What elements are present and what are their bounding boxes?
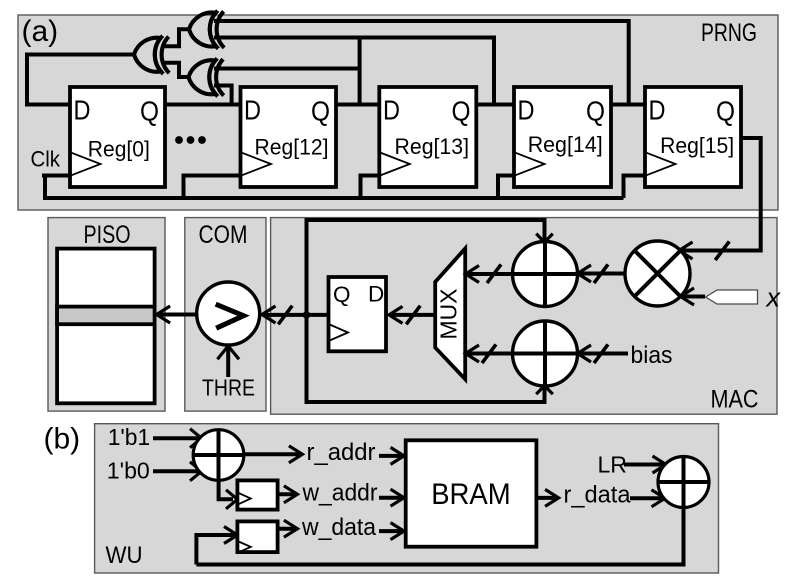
arrowhead into PISO — [157, 306, 171, 323]
svg-text:x: x — [765, 283, 782, 313]
wire LR to adderW2 — [624, 463, 663, 467]
wire clock stub Reg[14] — [498, 176, 514, 199]
svg-text:w_addr: w_addr — [302, 480, 378, 507]
tick on FF-COM wire — [278, 306, 292, 325]
svg-text:Q: Q — [333, 282, 351, 307]
PISO panel box — [48, 218, 165, 412]
clock triangle — [329, 324, 349, 341]
PISO shift register rect — [57, 249, 155, 404]
svg-text:Q: Q — [311, 96, 330, 127]
svg-text:r_data: r_data — [564, 482, 632, 509]
arrowhead into FF D — [389, 306, 403, 323]
wire: tap y=85.5 from bottom XOR to x=231.6 — [214, 86, 232, 105]
arrowhead into comparator — [262, 306, 276, 323]
arrowhead into w_data reg — [224, 527, 238, 544]
svg-text:Reg[0]: Reg[0] — [88, 137, 150, 162]
wire COM to PISO — [158, 313, 197, 317]
clock triangle — [514, 152, 545, 176]
wire w_data reg out — [278, 527, 294, 531]
svg-text:(a): (a) — [22, 15, 59, 48]
svg-text:bias: bias — [631, 342, 673, 369]
comparator > symbol — [216, 304, 244, 328]
svg-text:Q: Q — [140, 96, 159, 127]
svg-text:MAC: MAC — [711, 386, 759, 414]
svg-text:Reg[14]: Reg[14] — [528, 132, 603, 157]
wire THRE arrow — [226, 348, 230, 377]
wire FF Q to comparator — [264, 313, 329, 317]
wire multiplier to adder1 — [580, 272, 625, 276]
wire: tap y=21 from top XOR to x=628.7 — [214, 21, 629, 105]
arrowhead into multiplier right — [681, 288, 695, 305]
arrowhead into BRAM r_addr — [391, 447, 405, 464]
adder1 circle (upper) — [513, 242, 578, 307]
tick on adder1-MUX wire — [487, 264, 501, 283]
WU panel box — [95, 424, 719, 573]
wire Reg[12].Q to Reg[13].D — [336, 103, 379, 107]
plus cross — [193, 430, 244, 481]
tick on MUX-FF wire — [406, 306, 420, 325]
arrowhead into w_addr reg — [226, 490, 237, 509]
x input flag — [706, 290, 758, 304]
MAC panel box — [271, 218, 777, 415]
svg-text:D: D — [368, 282, 384, 307]
wire clock stub Reg[13] — [361, 176, 380, 199]
w_data register — [237, 521, 277, 552]
wire: top XOR output to middle XOR input — [164, 29, 190, 46]
arrowhead w_data — [284, 520, 298, 537]
wire: middle XOR output to Reg[0] D — [27, 55, 135, 105]
comparator circle — [197, 282, 260, 345]
tick on Reg[15] output wire — [715, 241, 729, 260]
clock triangle — [645, 152, 676, 176]
multiplier circle — [625, 241, 690, 306]
wire: tap y=68.5 from bottom XOR to x=359.6 — [214, 67, 360, 71]
wire: vertical tap x=359.6 — [358, 38, 362, 105]
tick on adder2-MUX wire — [482, 344, 496, 363]
xor gate G1 (top) — [189, 11, 224, 49]
wire r_data to adderW2 — [630, 496, 662, 500]
xor gate G2 (middle) — [134, 36, 169, 74]
svg-text:COM: COM — [199, 221, 248, 249]
svg-text:Q: Q — [716, 96, 735, 127]
wire adder1 to MUX — [468, 272, 513, 276]
svg-text:BRAM: BRAM — [431, 478, 511, 511]
wire w_addr to BRAM — [379, 496, 402, 500]
arrowhead r_data — [545, 489, 559, 506]
times cross — [635, 251, 681, 297]
arrowhead THRE up — [217, 346, 239, 359]
svg-text:D: D — [518, 95, 535, 126]
register Reg[12] — [241, 87, 337, 187]
wire r_addr to BRAM — [379, 454, 402, 458]
svg-text:D: D — [383, 95, 400, 126]
plus cross — [658, 457, 709, 508]
svg-text:Q: Q — [452, 96, 471, 127]
svg-text:WU: WU — [106, 542, 143, 569]
adder W1 circle — [193, 430, 244, 481]
wire Clk into Reg[0] — [42, 174, 70, 178]
w_addr register — [237, 480, 277, 509]
wire Reg[13].Q to Reg[14].D — [477, 103, 515, 107]
svg-text:PISO: PISO — [84, 221, 131, 249]
PISO middle band — [57, 307, 155, 325]
svg-text:D: D — [244, 95, 261, 126]
COM panel box — [185, 218, 266, 412]
wire Reg[14].Q to Reg[15].D — [611, 103, 645, 107]
wire clock stub Reg[12] — [184, 176, 241, 199]
wire 1'b0 to adderW1 — [153, 469, 199, 473]
clock triangle — [237, 541, 250, 553]
wire feedback into w_data reg — [196, 535, 234, 565]
arrowhead w_addr — [284, 486, 298, 503]
tick on mult-adder1 wire — [594, 264, 608, 283]
clock triangle — [237, 492, 250, 504]
wire MUX to FF — [391, 313, 435, 317]
PRNG panel box — [18, 15, 778, 210]
wire adderW1 to r_addr — [244, 452, 299, 456]
svg-text:1'b1: 1'b1 — [108, 424, 151, 450]
arrowhead 1'b1 — [190, 429, 202, 448]
svg-text:w_data: w_data — [301, 514, 377, 541]
arrowhead into MUX lower — [466, 345, 480, 362]
dots between Reg[0] and Reg[12] — [175, 136, 206, 144]
wire: bottom XOR output to middle XOR input — [164, 63, 190, 77]
junction dot — [303, 311, 311, 319]
MUX trapezoid — [435, 249, 465, 380]
wire 1'b1 to adderW1 — [153, 436, 199, 440]
register Reg[13] — [379, 87, 476, 187]
register Reg[0] — [70, 87, 165, 187]
svg-text:D: D — [74, 95, 91, 126]
svg-text:Reg[15]: Reg[15] — [660, 133, 734, 158]
wire w_addr reg out — [278, 492, 294, 496]
wire w_data to BRAM — [379, 529, 402, 533]
flip-flop in MAC — [329, 277, 387, 351]
arrowhead into adder1 bottom — [536, 386, 553, 395]
arrowhead into BRAM w_data — [391, 523, 405, 540]
svg-text:r_addr: r_addr — [307, 439, 376, 466]
wire accumulator feedback loop top — [307, 220, 545, 315]
arrowhead r_addr — [289, 446, 303, 463]
clock triangle — [241, 152, 272, 176]
svg-text:1'b0: 1'b0 — [107, 458, 150, 484]
svg-text:LR: LR — [598, 452, 627, 478]
BRAM box — [406, 440, 537, 546]
wire clock stub Reg[15] — [624, 176, 646, 199]
adder W2 circle — [658, 457, 709, 508]
arrowhead into adder2 right — [578, 345, 592, 362]
wire: tap y=37.5 from top XOR to x=494 — [214, 38, 494, 105]
arrowhead into adder1 right — [578, 265, 592, 282]
arrowhead into BRAM w_addr — [391, 489, 405, 506]
svg-text:PRNG: PRNG — [701, 19, 757, 47]
arrowhead into MUX upper — [466, 266, 480, 283]
adder2 circle (lower/bias) — [513, 321, 578, 386]
wire accumulator feedback loop bottom — [307, 315, 545, 402]
clock triangle — [379, 152, 410, 176]
wire clock bus — [45, 176, 624, 199]
plus cross — [513, 321, 578, 386]
svg-text:MUX: MUX — [436, 289, 462, 340]
register Reg[15] — [645, 87, 741, 187]
arrowhead into adder1 top — [536, 234, 553, 243]
svg-text:D: D — [649, 95, 666, 126]
plus cross — [513, 242, 578, 307]
svg-text:Reg[12]: Reg[12] — [255, 135, 329, 160]
arrowhead into adderW2 lower-left — [652, 490, 666, 507]
wire Reg[15].Q output down to multiplier — [681, 138, 761, 251]
svg-text:(b): (b) — [44, 423, 81, 456]
wire Reg[0].Q to Reg[12].D — [165, 103, 241, 107]
wire adderW1 down to w_addr reg — [219, 479, 233, 499]
tick on bias wire — [594, 344, 608, 363]
xor gate G3 (bottom) — [189, 58, 224, 96]
arrowhead 1'b0 — [190, 462, 202, 481]
arrowhead into adderW2 upper-left — [653, 456, 667, 473]
arrowhead into multiplier top-right — [679, 242, 693, 259]
wire bias to adder2 — [580, 352, 628, 356]
clock triangle — [70, 152, 101, 176]
svg-text:Reg[13]: Reg[13] — [395, 134, 470, 159]
svg-text:THRE: THRE — [202, 375, 255, 401]
wire x to multiplier — [683, 295, 705, 299]
wire adder2 to MUX — [468, 352, 513, 356]
wire BRAM r_data out — [536, 496, 555, 500]
register Reg[14] — [514, 87, 611, 187]
wire adderW2 output feedback to w_data — [196, 507, 683, 565]
svg-text:Clk: Clk — [31, 147, 61, 172]
svg-text:Q: Q — [586, 96, 605, 127]
